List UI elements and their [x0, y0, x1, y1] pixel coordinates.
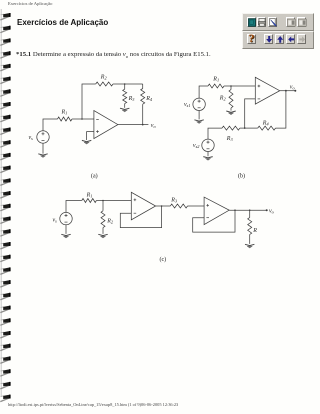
resistor R4 (b) [258, 126, 276, 130]
node R2 tap (b) [230, 85, 232, 87]
resistor R3 (a) [124, 84, 126, 89]
resistor R2 (c) [102, 201, 104, 211]
wire R2 to R3 node (a) [113, 83, 143, 85]
svg-text:R: R [252, 228, 257, 234]
terminal dot v_o (b) [294, 90, 296, 92]
voltage source v_s (circuit c) [60, 212, 72, 224]
wire op-amp1 out to R3 (c) [156, 205, 171, 207]
resistor R (c) [249, 210, 251, 217]
node R2 tap (c) [102, 200, 104, 202]
node R4 to output junction (a) [142, 124, 144, 126]
resistor R1 (a) [58, 117, 73, 121]
svg-text:R2: R2 [106, 218, 114, 224]
svg-text:R1: R1 [212, 76, 219, 82]
svg-text:(a): (a) [91, 173, 98, 180]
svg-text:R2: R2 [219, 96, 227, 102]
op-amp U2 (c) [204, 197, 229, 225]
resistor R2 (b) [230, 86, 232, 90]
feedback loop op-amp2 (c) [193, 210, 235, 232]
heading [17, 17, 108, 27]
node bottom rail junction (b) [244, 127, 246, 129]
node feedback1 on output (c) [161, 205, 163, 207]
svg-text:vs1: vs1 [184, 102, 191, 108]
wire v_s to R1 (c) [66, 201, 82, 213]
wire op-amp + input to ground (a) [87, 132, 94, 140]
node feedback2 on output (c) [234, 209, 236, 211]
ground under v_s1 (b) [198, 111, 200, 120]
svg-text:R2: R2 [100, 75, 108, 81]
resistor R3 (c) [170, 204, 187, 208]
svg-text:R3: R3 [226, 136, 233, 142]
resistor R4 (a) [142, 84, 144, 89]
feedback loop op-amp1 (c) [120, 206, 161, 228]
ground at op-amp + input (a) [82, 140, 91, 144]
op-amp U1 (a) [94, 111, 118, 139]
wire op-amp - input down to bottom rail (b) [245, 99, 256, 128]
resistor R1 (b) [208, 84, 224, 88]
voltage source v_s1 (circuit b) [193, 98, 205, 110]
svg-text:(b): (b) [238, 173, 245, 180]
wire R1 to op-amp inverting input (a) [72, 118, 94, 120]
output wire to v_o (c) [229, 209, 267, 211]
wire R1 to op-amp1 (c) [96, 200, 131, 202]
svg-text:R3: R3 [170, 198, 177, 204]
terminal dot v_o (c) [266, 209, 268, 211]
voltage source v_s2 (b) [202, 139, 214, 151]
svg-text:(c): (c) [160, 256, 167, 263]
ground under v_s2 (b) [207, 152, 209, 157]
resistor R2 (a) [96, 82, 113, 86]
ground under v_s (c) [65, 225, 67, 234]
ground under R2 (b) [226, 111, 235, 115]
svg-text:R4: R4 [145, 96, 153, 102]
wire v_s1 to R1 (b) [199, 86, 208, 98]
node R3 tap (a) [124, 83, 126, 85]
op-amp U1 (c) [131, 192, 155, 220]
ground under v_s (a) [42, 143, 44, 153]
resistor R3 (b) [222, 126, 240, 130]
wire R3 to v_s2 (b) [208, 128, 222, 139]
wire output down to R4 (b) [276, 91, 286, 128]
resistor R1 (c) [82, 199, 97, 203]
wire R1 to op-amp + input (b) [224, 85, 255, 87]
svg-text:R1: R1 [61, 109, 68, 115]
ground under R2 (c) [98, 234, 107, 238]
svg-text:vo: vo [290, 84, 296, 90]
svg-text:vs: vs [53, 217, 58, 223]
footer url [8, 402, 178, 407]
svg-text:R1: R1 [86, 192, 93, 198]
output node to feedback (b) [285, 90, 287, 92]
output wire with terminal (b) [280, 90, 296, 92]
svg-text:vs2: vs2 [193, 143, 200, 149]
wire R3 to op-amp2 (c) [188, 205, 205, 207]
svg-text:R3: R3 [128, 96, 135, 102]
svg-text:vo: vo [269, 208, 275, 214]
problem statement 15.1 [16, 52, 211, 59]
spiral binding (decorative) [0, 0, 14, 414]
ground under R3 (a) [120, 108, 129, 112]
node at feedback tap (a) [81, 118, 83, 120]
wire node up to feedback rail (a) [82, 84, 96, 119]
svg-text:vs: vs [29, 135, 34, 141]
op-amp U1 (b) [255, 77, 279, 104]
output wire to v_o (a) [118, 124, 148, 126]
tiny window title [8, 1, 52, 6]
circuits figure E15.1 [0, 0, 320, 270]
voltage source v_s (circuit a) [37, 131, 49, 143]
svg-text:vo: vo [151, 123, 157, 129]
wire R4 to node (b) [245, 127, 258, 129]
wire source top to R1 (a) [43, 119, 58, 131]
ground under R (c) [245, 244, 254, 248]
node R tap (c) [249, 209, 251, 211]
svg-text:R4: R4 [262, 120, 270, 126]
